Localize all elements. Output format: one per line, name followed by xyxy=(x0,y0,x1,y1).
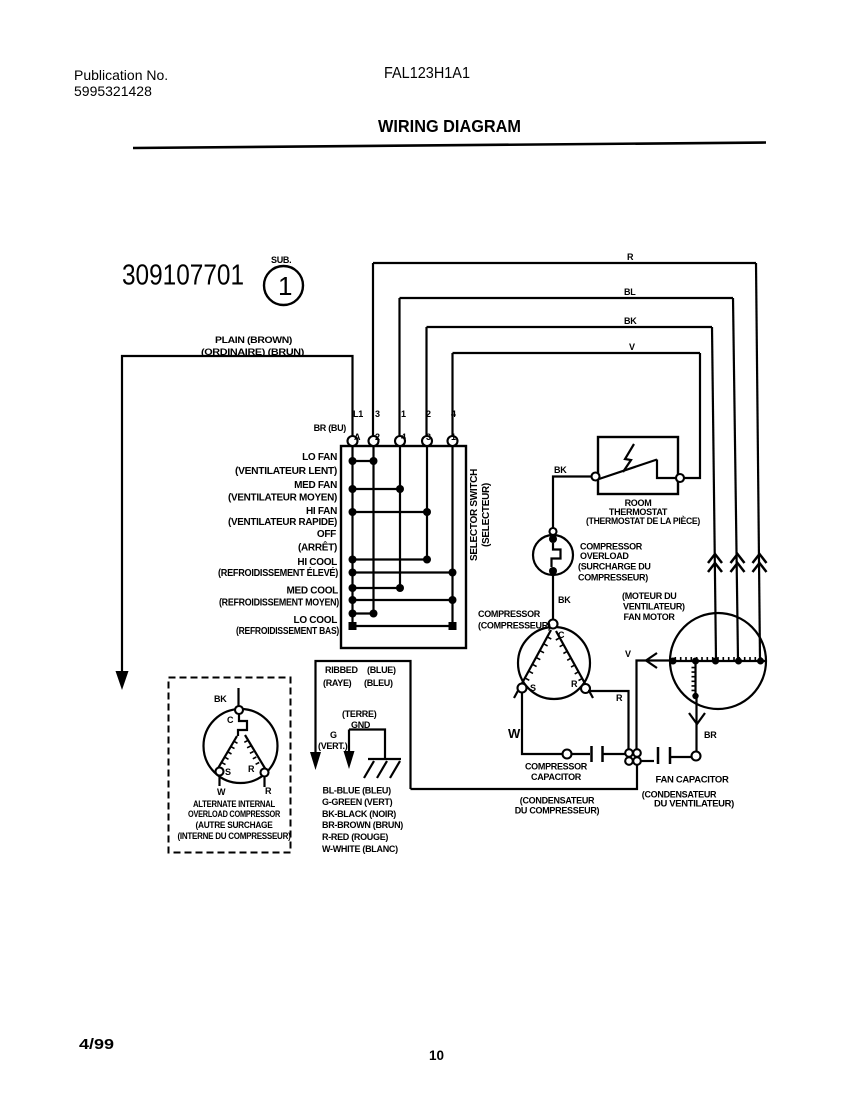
thermostat right terminal xyxy=(676,474,684,482)
svg-text:COMPRESSOR: COMPRESSOR xyxy=(478,609,541,619)
switch internal vertical t5 xyxy=(451,446,453,626)
wire V top horizontal xyxy=(453,352,701,354)
wire BR plain brown: terminal 1 up, left, down xyxy=(122,356,353,672)
svg-text:(BLUE): (BLUE) xyxy=(367,665,396,675)
svg-text:W: W xyxy=(217,787,226,797)
wire BK top horizontal xyxy=(427,326,713,328)
svg-text:1: 1 xyxy=(278,271,292,301)
svg-text:BL: BL xyxy=(624,287,636,297)
title underline xyxy=(133,143,766,149)
alt compressor left winding xyxy=(217,736,237,770)
switch internal vertical t4 xyxy=(426,446,428,560)
wire V left drop xyxy=(451,353,453,436)
svg-text:BR: BR xyxy=(704,730,717,740)
svg-text:(VENTILATEUR RAPIDE): (VENTILATEUR RAPIDE) xyxy=(228,517,337,528)
svg-text:BR (BU): BR (BU) xyxy=(314,423,347,433)
row HI COOL b t1-t5 xyxy=(353,571,453,573)
svg-text:S: S xyxy=(225,767,231,777)
ribbed blue wire top xyxy=(316,661,411,789)
svg-text:4/99: 4/99 xyxy=(79,1037,114,1053)
svg-text:5995321428: 5995321428 xyxy=(74,83,152,99)
svg-text:(ARRÊT): (ARRÊT) xyxy=(298,541,337,554)
svg-text:LO FAN: LO FAN xyxy=(302,452,337,463)
SUB circle 1 xyxy=(264,266,303,305)
switch internal vertical t2 xyxy=(372,446,374,614)
thermostat left terminal xyxy=(592,473,600,481)
svg-text:V: V xyxy=(629,342,635,352)
arrow on ribbed blue wire xyxy=(310,752,321,770)
svg-text:BK: BK xyxy=(554,465,567,475)
svg-text:RIBBED: RIBBED xyxy=(325,665,359,675)
svg-text:FAN MOTOR: FAN MOTOR xyxy=(624,612,676,622)
svg-text:BL-BLUE (BLEU): BL-BLUE (BLEU) xyxy=(323,786,392,796)
terminal circles on switch xyxy=(348,436,358,446)
row HI FAN t1-t4 xyxy=(353,511,428,513)
svg-text:R: R xyxy=(627,252,634,262)
row LO FAN t1-t2 xyxy=(353,460,374,462)
fan motor winding horizontal xyxy=(670,660,766,662)
alt compressor circle xyxy=(204,709,278,783)
svg-text:W-WHITE (BLANC): W-WHITE (BLANC) xyxy=(322,844,398,854)
alt compressor top wire xyxy=(237,688,239,706)
svg-text:4: 4 xyxy=(451,409,456,419)
svg-text:(TERRE): (TERRE) xyxy=(342,709,377,719)
svg-text:A: A xyxy=(354,432,361,442)
svg-text:2: 2 xyxy=(375,432,380,442)
svg-text:10: 10 xyxy=(429,1048,444,1063)
svg-text:3: 3 xyxy=(375,409,380,419)
svg-text:(AUTRE SURCHAGE: (AUTRE SURCHAGE xyxy=(196,820,273,830)
svg-text:COMPRESSEUR): COMPRESSEUR) xyxy=(578,573,648,583)
arrow on BR wire xyxy=(689,713,705,724)
svg-text:1: 1 xyxy=(451,432,456,442)
svg-text:4: 4 xyxy=(401,432,406,442)
arrow on V wire xyxy=(646,653,657,668)
svg-text:(COMPRESSEUR): (COMPRESSEUR) xyxy=(478,621,551,631)
row MED COOL b t1-t5 xyxy=(353,599,453,601)
svg-text:DU VENTILATEUR): DU VENTILATEUR) xyxy=(654,799,734,809)
wire BK right drop xyxy=(712,327,716,660)
svg-text:ALTERNATE INTERNAL: ALTERNATE INTERNAL xyxy=(193,799,276,809)
alt compressor internal overload step xyxy=(238,714,247,736)
svg-text:COMPRESSOR: COMPRESSOR xyxy=(580,542,643,552)
row LO COOL a t1-t2 xyxy=(353,612,374,614)
row LO COOL b t1-t5 xyxy=(353,625,453,627)
svg-text:BR-BROWN (BRUN): BR-BROWN (BRUN) xyxy=(322,820,403,830)
svg-text:(MOTEUR DU: (MOTEUR DU xyxy=(622,591,677,601)
svg-text:BK-BLACK (NOIR): BK-BLACK (NOIR) xyxy=(322,809,396,819)
junction block 4 circles xyxy=(625,749,633,757)
svg-text:R: R xyxy=(616,693,623,703)
wire BR fan motor to fan capacitor xyxy=(695,698,697,752)
wire V from fan motor to junction xyxy=(637,661,671,750)
svg-text:C: C xyxy=(227,715,234,725)
wire R right drop to fan motor xyxy=(756,263,760,660)
svg-text:BK: BK xyxy=(558,595,571,605)
svg-text:W: W xyxy=(508,726,521,741)
svg-text:309107701: 309107701 xyxy=(122,260,244,292)
compressor R terminal xyxy=(581,684,590,693)
svg-text:SUB.: SUB. xyxy=(271,255,291,265)
wire BL top horizontal xyxy=(400,297,734,299)
wire R from compressor R to junction xyxy=(588,691,629,749)
svg-text:(SURCHARGE DU: (SURCHARGE DU xyxy=(578,562,651,572)
chevrons on BL wire xyxy=(731,554,745,572)
svg-text:(VERT.): (VERT.) xyxy=(318,741,348,751)
wire BL left drop xyxy=(398,298,400,436)
svg-text:DU COMPRESSEUR): DU COMPRESSEUR) xyxy=(515,806,600,816)
wire R top horizontal xyxy=(373,262,756,264)
switch internal vertical t3 xyxy=(399,446,401,588)
svg-text:MED FAN: MED FAN xyxy=(294,480,337,491)
svg-text:FAL123H1A1: FAL123H1A1 xyxy=(384,65,470,82)
svg-text:(ORDINAIRE) (BRUN): (ORDINAIRE) (BRUN) xyxy=(201,347,304,357)
svg-text:(CONDENSATEUR: (CONDENSATEUR xyxy=(520,796,595,806)
svg-text:WIRING DIAGRAM: WIRING DIAGRAM xyxy=(378,116,521,136)
svg-text:PLAIN (BROWN): PLAIN (BROWN) xyxy=(215,335,292,345)
svg-text:VENTILATEUR): VENTILATEUR) xyxy=(623,602,685,612)
svg-text:R-RED (ROUGE): R-RED (ROUGE) xyxy=(322,832,388,842)
chevrons on BK wire xyxy=(708,554,722,572)
svg-text:FAN CAPACITOR: FAN CAPACITOR xyxy=(656,775,730,785)
svg-text:(REFROIDISSEMENT MOYEN): (REFROIDISSEMENT MOYEN) xyxy=(219,598,339,609)
thermostat bimetal zigzag xyxy=(623,444,634,472)
svg-text:R: R xyxy=(265,786,272,796)
arrow on brown wire xyxy=(116,671,129,690)
wire W from S to compressor capacitor xyxy=(522,693,563,755)
svg-text:R: R xyxy=(248,764,255,774)
ground symbol xyxy=(364,759,401,778)
wire BK left drop xyxy=(425,327,427,436)
compressor motor xyxy=(518,627,590,699)
svg-text:LO COOL: LO COOL xyxy=(294,615,338,626)
svg-text:2: 2 xyxy=(426,409,431,419)
wire V right drop to thermostat xyxy=(684,353,700,478)
chevrons on R wire xyxy=(753,554,767,572)
thermostat box xyxy=(598,437,678,494)
svg-text:(VENTILATEUR MOYEN): (VENTILATEUR MOYEN) xyxy=(228,493,337,504)
alt compressor C terminal xyxy=(235,706,243,714)
wire R left drop to terminal 2 xyxy=(372,263,374,436)
svg-text:(RAYE): (RAYE) xyxy=(323,678,352,688)
compressor C terminal xyxy=(549,620,558,629)
row MED COOL a t1-t3 xyxy=(353,587,401,589)
alt compressor R terminal xyxy=(261,769,269,777)
svg-text:MED COOL: MED COOL xyxy=(287,586,339,597)
row MED FAN t1-t3 xyxy=(353,488,401,490)
svg-text:(INTERNE DU COMPRESSEUR): (INTERNE DU COMPRESSEUR) xyxy=(178,831,291,841)
svg-text:COMPRESSOR: COMPRESSOR xyxy=(525,762,588,772)
wire BK thermostat to overload xyxy=(553,477,592,529)
svg-text:HI COOL: HI COOL xyxy=(297,557,337,568)
compressor capacitor xyxy=(563,750,572,759)
svg-text:3: 3 xyxy=(426,432,431,442)
svg-text:(VENTILATEUR LENT): (VENTILATEUR LENT) xyxy=(235,466,337,477)
svg-text:(REFROIDISSEMENT ÉLEVÉ): (REFROIDISSEMENT ÉLEVÉ) xyxy=(218,566,338,579)
svg-text:R: R xyxy=(571,679,578,689)
selector switch box xyxy=(341,446,466,648)
svg-text:CAPACITOR: CAPACITOR xyxy=(531,772,582,782)
svg-text:HI FAN: HI FAN xyxy=(306,506,337,517)
compressor right winding xyxy=(556,631,593,698)
svg-text:(REFROIDISSEMENT BAS): (REFROIDISSEMENT BAS) xyxy=(236,626,339,637)
svg-text:(SELECTEUR): (SELECTEUR) xyxy=(481,483,492,547)
alternate compressor dashed box xyxy=(169,678,291,853)
svg-text:L1: L1 xyxy=(353,409,363,419)
fan motor junction dots xyxy=(670,658,677,665)
alt compressor S terminal xyxy=(216,768,224,776)
svg-text:S: S xyxy=(530,683,536,693)
thermostat internal contact xyxy=(599,460,676,480)
svg-text:Publication No.: Publication No. xyxy=(74,67,168,83)
arrow on G wire xyxy=(344,751,355,769)
fan capacitor xyxy=(641,760,654,762)
alt compressor W stub xyxy=(218,776,220,787)
svg-text:BK: BK xyxy=(214,694,227,704)
svg-text:OVERLOAD COMPRESSOR: OVERLOAD COMPRESSOR xyxy=(188,809,281,819)
svg-text:G-GREEN (VERT): G-GREEN (VERT) xyxy=(322,797,393,807)
svg-text:1: 1 xyxy=(401,409,406,419)
wire G ground xyxy=(349,730,385,759)
svg-text:OFF: OFF xyxy=(317,529,336,540)
wire BL right drop xyxy=(733,298,738,660)
compressor overload xyxy=(550,528,557,535)
wire BK overload to compressor xyxy=(552,575,554,620)
svg-text:(BLEU): (BLEU) xyxy=(364,678,393,688)
row HI COOL a t1-t4 xyxy=(353,558,428,560)
svg-text:G: G xyxy=(330,730,337,740)
compressor left winding xyxy=(514,630,551,698)
svg-text:V: V xyxy=(625,649,631,659)
fan motor vertical winding xyxy=(694,661,696,697)
svg-text:(THERMOSTAT DE LA PIÈCE): (THERMOSTAT DE LA PIÈCE) xyxy=(586,516,700,526)
alt compressor R stub xyxy=(263,777,265,788)
fan motor xyxy=(670,613,766,709)
svg-text:OVERLOAD: OVERLOAD xyxy=(580,551,629,561)
alt compressor right winding xyxy=(245,735,266,770)
switch internal vertical t1 xyxy=(351,446,353,626)
svg-text:BK: BK xyxy=(624,316,637,326)
svg-text:SELECTOR SWITCH: SELECTOR SWITCH xyxy=(469,469,480,561)
junction drop to lower wire xyxy=(411,765,638,789)
compressor S terminal xyxy=(518,684,527,693)
